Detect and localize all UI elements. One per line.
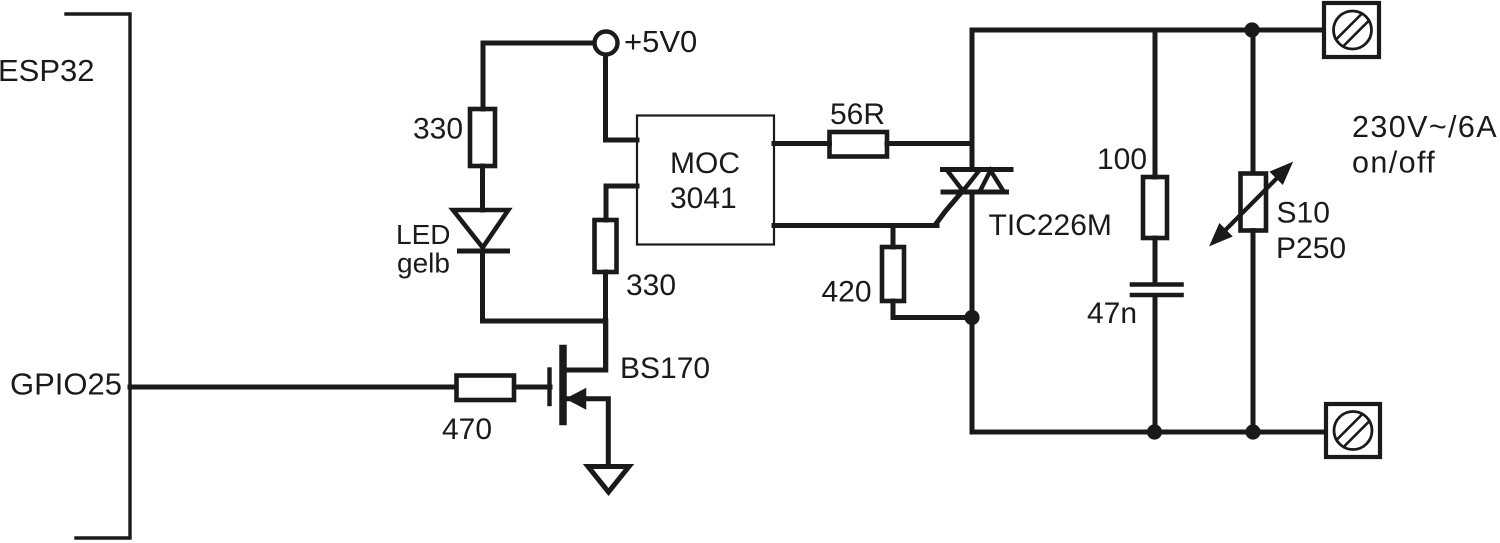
svg-text:on/off: on/off xyxy=(1352,146,1436,180)
terminal X1 slot line 1 xyxy=(1336,14,1362,40)
wire MOC pin2 to R330b xyxy=(606,186,637,220)
triac top bar xyxy=(943,167,1012,172)
svg-text:ESP32: ESP32 xyxy=(0,53,95,88)
terminal X2 slot line 2 xyxy=(1344,421,1370,447)
svg-text:gelb: gelb xyxy=(397,248,450,279)
triac Q2 lower vertical wire xyxy=(970,192,975,432)
triac Q2 vertical anode wire xyxy=(970,30,975,170)
resistor 420 xyxy=(882,247,904,301)
svg-text:TIC226M: TIC226M xyxy=(989,209,1112,242)
svg-text:GPIO25: GPIO25 xyxy=(10,367,122,402)
terminal X1 box xyxy=(1324,3,1379,57)
wire down to R330a xyxy=(481,43,486,109)
triac gate diagonal xyxy=(936,190,964,225)
svg-text:BS170: BS170 xyxy=(620,352,710,385)
wire R330a to LED xyxy=(480,166,485,210)
wire +5V rail to LED branch xyxy=(483,41,593,46)
resistor 100 xyxy=(1143,177,1167,238)
wire rail to varistor xyxy=(1251,30,1256,171)
wire R420 to bottom node xyxy=(893,301,972,318)
wire R330b down to drain xyxy=(603,272,608,370)
bottom rail wire xyxy=(972,430,1323,435)
junction dot top rail xyxy=(1244,22,1259,37)
wire varistor to bottom rail xyxy=(1251,231,1256,433)
top rail wire xyxy=(972,28,1322,33)
ESP32 module bracket xyxy=(66,14,130,538)
svg-text:100: 100 xyxy=(1097,143,1147,176)
terminal X2 slot line 1 xyxy=(1337,414,1363,440)
wire R56 to triac anode line xyxy=(887,141,972,146)
transistor Q1 source lead xyxy=(565,399,608,464)
transistor Q1 drain lead xyxy=(565,321,606,370)
wire R100 to C47n xyxy=(1153,238,1158,283)
svg-text:330: 330 xyxy=(413,113,463,146)
svg-text:3041: 3041 xyxy=(670,182,737,215)
terminal X1 slot line 2 xyxy=(1343,21,1369,47)
op-coupler U1 MOC3041 box xyxy=(637,116,774,245)
svg-text:+5V0: +5V0 xyxy=(624,24,697,59)
junction dot xyxy=(964,310,979,325)
triac right triangle xyxy=(980,171,1005,193)
svg-text:230V~/6A: 230V~/6A xyxy=(1352,110,1498,144)
transistor Q1 BS170 gate bar xyxy=(547,370,551,405)
svg-text:47n: 47n xyxy=(1087,297,1137,330)
ground xyxy=(588,467,629,493)
resistor R330b xyxy=(595,220,617,272)
LED D1 triangle xyxy=(453,210,508,248)
resistor 470 xyxy=(457,376,515,401)
wire rail to R100 xyxy=(1153,30,1158,177)
node +5V0 terminal circle xyxy=(595,32,618,55)
triac bottom bar xyxy=(943,190,1007,195)
svg-text:470: 470 xyxy=(442,413,492,446)
resistor 56R xyxy=(830,132,888,157)
varistor arrow head upper xyxy=(1271,164,1291,184)
junction dot xyxy=(1245,424,1260,439)
junction dot xyxy=(1147,424,1162,439)
wire R470 to gate xyxy=(515,385,550,390)
varistor S10 body xyxy=(1241,174,1267,231)
wire gate branch down to R420 xyxy=(891,226,896,248)
varistor arrow shaft xyxy=(1216,169,1286,240)
svg-text:P250: P250 xyxy=(1276,232,1346,265)
svg-text:420: 420 xyxy=(822,276,872,309)
transistor Q1 source arrow xyxy=(567,389,586,409)
triac left triangle xyxy=(947,170,981,192)
wire MOC pin4 to triac gate xyxy=(774,223,937,228)
terminal X2 box xyxy=(1326,404,1380,457)
varistor arrow head lower xyxy=(1211,225,1231,245)
svg-text:56R: 56R xyxy=(830,98,885,131)
terminal X2 screw circle xyxy=(1334,412,1372,450)
wire GPIO25 to R470 xyxy=(130,385,454,390)
wire C47n to bottom rail xyxy=(1153,297,1158,432)
svg-text:330: 330 xyxy=(626,269,676,302)
capacitor C1 47n plate 1 xyxy=(1132,282,1182,287)
capacitor C1 47n plate 2 xyxy=(1132,293,1182,298)
terminal X1 screw circle xyxy=(1334,11,1372,49)
svg-text:S10: S10 xyxy=(1277,197,1330,230)
wire MOC pin6 to R56 xyxy=(774,141,830,146)
svg-text:MOC: MOC xyxy=(670,147,740,180)
LED D1 cathode bar xyxy=(460,249,508,254)
resistor R330a xyxy=(470,109,495,166)
wire LED down and right to drain node xyxy=(483,251,606,321)
transistor Q1 channel bar xyxy=(559,349,567,422)
wire +5V circle down to MOC pin1 xyxy=(606,56,638,140)
svg-text:LED: LED xyxy=(396,219,450,250)
